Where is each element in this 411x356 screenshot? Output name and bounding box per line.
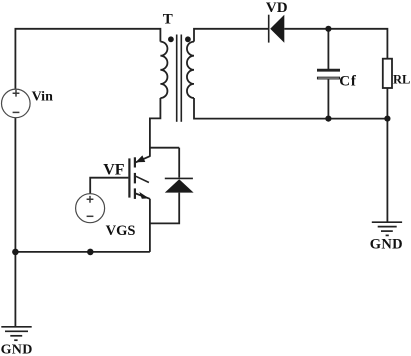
svg-text:T: T: [163, 12, 173, 28]
svg-text:GND: GND: [370, 237, 403, 253]
svg-text:VF: VF: [103, 161, 125, 178]
svg-text:GND: GND: [1, 342, 33, 356]
svg-text:RL: RL: [393, 72, 410, 86]
svg-text:VD: VD: [266, 0, 288, 16]
svg-text:Cf: Cf: [339, 74, 357, 90]
svg-text:VGS: VGS: [106, 223, 136, 239]
svg-text:Vin: Vin: [32, 90, 53, 105]
